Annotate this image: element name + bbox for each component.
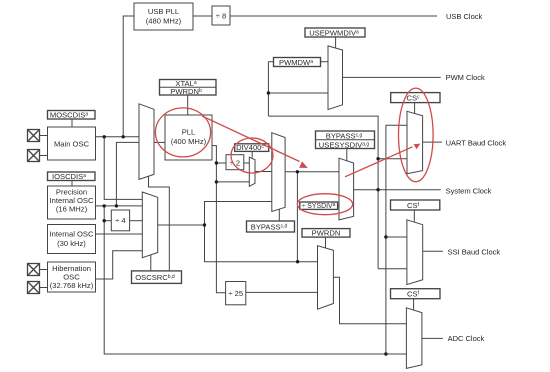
wire PLL to divide-by-2 (216, 162, 226, 164)
wire UART Baud Clock output (423, 141, 442, 143)
wire SSI Baud Clock output (423, 250, 443, 252)
block divide-by-8 (212, 6, 230, 25)
svg-text:MOSCDISa: MOSCDISa (50, 111, 88, 120)
wire SSI CS stub (413, 210, 415, 222)
wire MOSCDIS stub (71, 119, 73, 128)
svg-text:PWMDWa: PWMDWa (279, 58, 313, 67)
pin pad crystal 2 (28, 150, 40, 162)
svg-text:System Clock: System Clock (446, 187, 492, 196)
wire PWMDW riser (267, 62, 269, 116)
wire IOSCDIS stub (71, 181, 73, 187)
junction adc source (296, 260, 299, 263)
annotation ellipse SYSDIV (297, 194, 352, 215)
junction usb pll tap (122, 135, 125, 138)
wire PLL output trunk (212, 146, 226, 293)
svg-text:÷ SYSDIVa: ÷ SYSDIVa (302, 202, 336, 210)
register IOSCDIS (48, 172, 96, 181)
svg-text:PWRDNb: PWRDNb (170, 87, 202, 96)
block Main OSC (48, 127, 96, 160)
wire USESYSDIV stub (346, 149, 348, 162)
svg-text:PWRDN: PWRDN (312, 229, 341, 238)
svg-text:(30 kHz): (30 kHz) (57, 239, 86, 248)
junction main osc piosc rail (103, 135, 106, 138)
register BYPASS USESYSDIV (316, 131, 375, 149)
wire UART CS stub (414, 103, 416, 114)
wire PIOSC to divide-by-4 (104, 220, 111, 222)
svg-text:ADC Clock: ADC Clock (448, 334, 485, 343)
svg-text:USESYSDIVa,g: USESYSDIVa,g (319, 140, 370, 149)
junction piosc rail (103, 204, 106, 207)
wire PIOSC to bottom rail (104, 206, 406, 354)
junction pll div2 tap (215, 161, 218, 164)
wire OSCSRC to PLL mux control (149, 176, 170, 271)
wire USB PLL to divide-by-8 (193, 15, 212, 17)
wire SYSDIV feed (296, 172, 298, 262)
wire PLL mux output (154, 141, 165, 143)
annotation arrow to sysdiv (202, 116, 300, 162)
junction bottom rail (384, 352, 387, 355)
block PLL (165, 115, 212, 160)
wire PWM Clock output (343, 76, 441, 78)
block USB PLL (134, 3, 193, 30)
svg-text:UART Baud Clock: UART Baud Clock (446, 138, 507, 147)
mux U10 ADC (406, 308, 422, 369)
wire bypass mux output (285, 171, 339, 173)
junction pll direct tap (215, 180, 218, 183)
svg-text:DIV400c: DIV400c (236, 143, 264, 152)
svg-text:(16 MHz): (16 MHz) (56, 205, 88, 214)
wire hibernation pin 2 (40, 287, 48, 289)
wire XTAL PWRDN stub (187, 95, 189, 115)
wire PIOSC to SSI mux (386, 236, 407, 238)
register SYSDIV (300, 202, 338, 209)
wire PIOSC output (96, 205, 143, 207)
wire Main OSC branch to OSCSRC mux (104, 137, 142, 200)
wire OSCSRC mux output (158, 224, 205, 226)
svg-text:PWM Clock: PWM Clock (446, 73, 485, 82)
pin pad hibernation 1 (28, 264, 40, 276)
mux U9 SSI (407, 220, 423, 285)
register PWRDN (302, 229, 350, 238)
mux U6 ADC source (318, 246, 334, 310)
register USEPWMDIV (305, 28, 365, 37)
annotation arrow to uart cs (345, 147, 413, 177)
register MOSCDIS (48, 111, 96, 120)
annotation ellipse PLL (155, 108, 210, 157)
junction pwm tap (267, 91, 270, 94)
wire OSC to bypass mux (205, 202, 272, 226)
wire ADC source mux output (333, 277, 406, 324)
svg-text:SSI Baud Clock: SSI Baud Clock (448, 247, 501, 256)
junction osc branch (203, 223, 206, 226)
junction sysdiv tap (296, 170, 299, 173)
svg-text:÷ 4: ÷ 4 (115, 216, 126, 225)
register DIV400 (235, 144, 269, 152)
annotation arrowhead uart cs (414, 144, 421, 150)
svg-text:USB PLL: USB PLL (148, 7, 179, 16)
annotation ellipse UART CS (399, 88, 434, 182)
wire system clock riser (268, 116, 378, 269)
mux U8 UART (407, 111, 423, 174)
block Internal OSC (48, 225, 96, 254)
register CS uart (391, 93, 440, 103)
annotation arrowhead sysdiv (299, 161, 308, 168)
wire USB Clock output (230, 15, 437, 17)
wire USB PLL input feed (123, 16, 134, 137)
mux U3 DIV400 (249, 157, 255, 186)
svg-text:Internal OSC: Internal OSC (50, 230, 94, 239)
register BYPASS lower (247, 221, 295, 232)
mux U1 PLL source (139, 104, 154, 180)
wire SYSDIV output (338, 205, 339, 207)
svg-text:USEPWMDIVa: USEPWMDIVa (309, 29, 359, 38)
svg-text:÷ 25: ÷ 25 (228, 289, 243, 298)
svg-text:PLL: PLL (182, 128, 196, 137)
wire PIOSC branch to PLL mux (116, 142, 139, 206)
junction uart sysclk tap (376, 157, 379, 160)
register XTAL PWRDN (160, 80, 217, 96)
wire System Clock output (354, 189, 441, 191)
junction piosc pll branch (115, 204, 118, 207)
mux U7 PWM (328, 46, 343, 110)
junction div4 tap (103, 219, 106, 222)
wire ADC Clock output (422, 337, 443, 339)
wire PWRDN stub (325, 237, 327, 248)
junction system clock (376, 188, 379, 191)
wire OSCSRC stub to OSC mux (150, 255, 152, 271)
register PWMDW (274, 58, 321, 67)
wire PLL direct to DIV400 mux (216, 181, 249, 183)
register CS ssi (391, 200, 440, 210)
wire PIOSC riser (386, 125, 407, 354)
wire divide-by-4 output (130, 220, 143, 222)
block Hibernation OSC (48, 262, 96, 292)
svg-text:(480 MHz): (480 MHz) (146, 17, 182, 26)
wire Hibernation OSC output (96, 251, 143, 279)
mux U2 OSCSRC (142, 192, 157, 258)
block Precision Internal OSC (48, 186, 96, 219)
block divide-by-4 (111, 210, 129, 231)
wire Internal OSC output (96, 233, 143, 235)
wire divide-by-2 output (244, 162, 250, 164)
wire system clock to SSI mux (378, 268, 407, 270)
wire PWMDW output (321, 61, 329, 63)
pin pad hibernation 2 (28, 282, 40, 294)
wire to PWM mux input 2 (268, 92, 328, 94)
wire DIV400 stub (251, 151, 253, 158)
block divide-by-2 (226, 155, 244, 170)
wire PWMDW stub (268, 61, 273, 63)
svg-text:(400 MHz): (400 MHz) (171, 137, 207, 146)
wire crystal pin 1 (40, 135, 48, 137)
wire OSC to ADC source mux (205, 225, 318, 262)
wire crystal pin 2 (40, 155, 48, 157)
wire ADC CS stub (413, 299, 415, 310)
wire BYPASS stub (278, 210, 280, 222)
svg-text:USB Clock: USB Clock (446, 12, 483, 21)
wire system clock to UART mux (378, 158, 407, 160)
wire divide-by-25 output (246, 291, 318, 293)
wire Main OSC output (96, 136, 140, 138)
svg-text:÷ 8: ÷ 8 (216, 12, 227, 21)
svg-text:IOSCDISa: IOSCDISa (52, 172, 86, 181)
wire DIV400 mux output (255, 171, 272, 173)
mux U5 usesysdiv (339, 158, 354, 220)
svg-text:(32.768 kHz): (32.768 kHz) (50, 281, 94, 290)
register CS adc (391, 289, 441, 299)
register OSCSRC (132, 271, 182, 284)
svg-text:Main OSC: Main OSC (54, 140, 90, 149)
junction ssi piosc tap (384, 235, 387, 238)
wire USEPWMDIV stub (335, 37, 337, 48)
block divide-by-25 (226, 282, 246, 305)
mux U4 bypass (272, 133, 285, 212)
annotation ellipse DIV400 (231, 138, 273, 173)
wire hibernation pin 1 (40, 269, 48, 271)
pin pad crystal 1 (28, 130, 40, 142)
